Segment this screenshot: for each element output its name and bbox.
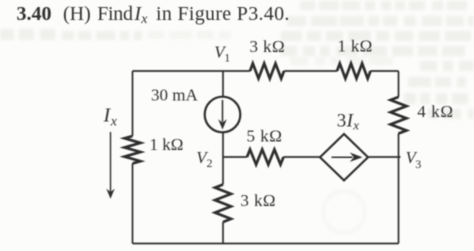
wire: 5k resistor to dependent source	[284, 156, 321, 158]
arrow inside dependent source (pointing right)	[332, 153, 363, 162]
svg-text:1 kΩ: 1 kΩ	[338, 37, 373, 56]
svg-text:(H): (H)	[63, 3, 91, 25]
svg-text:3 kΩ: 3 kΩ	[240, 191, 275, 210]
svg-text:Find: Find	[97, 3, 133, 25]
svg-text:3: 3	[337, 111, 347, 132]
svg-text:4 kΩ: 4 kΩ	[417, 102, 453, 121]
dependent current source 3Ix (diamond)	[320, 134, 368, 180]
wire: top rail between 3k and 1k	[284, 70, 337, 72]
resistor R 3k ohm (top)	[250, 64, 284, 79]
wire: top rail left segment (node V1 region)	[133, 70, 251, 72]
wire: V1 node down to current source	[222, 71, 224, 97]
resistor R 1k ohm (top right)	[337, 64, 371, 79]
svg-text:3.40: 3.40	[17, 3, 52, 25]
current source I1 30 mA (circle)	[205, 97, 241, 133]
wire: top rail right segment	[371, 70, 399, 72]
wire: left vertical upper segment	[132, 71, 134, 136]
svg-text:x: x	[110, 115, 118, 130]
wire: left vertical lower segment	[132, 164, 134, 244]
bleed-through circle from reverse page	[323, 191, 365, 233]
svg-text:30 mA: 30 mA	[151, 86, 198, 105]
svg-text:3: 3	[415, 157, 421, 171]
wire: node V2 to 5k resistor	[223, 156, 247, 158]
resistor R 3k ohm (bottom middle)	[215, 185, 231, 223]
svg-text:3 kΩ: 3 kΩ	[250, 37, 285, 56]
arrow inside 30 mA current source (pointing down)	[218, 100, 227, 130]
resistor R 5k ohm (middle)	[247, 150, 284, 165]
label V2	[196, 148, 212, 170]
label 3Ix (dependent source)	[337, 111, 359, 133]
resistor R 1k ohm (left branch)	[125, 136, 141, 164]
wire: current source to node V2	[222, 133, 224, 185]
resistor R 4k ohm (right branch)	[391, 97, 407, 134]
svg-text:in Figure P3.40.: in Figure P3.40.	[156, 3, 290, 25]
svg-text:2: 2	[207, 156, 213, 170]
label V3	[406, 148, 422, 171]
bleed-through text from reverse page (faint)	[0, 1, 474, 119]
svg-text:5 kΩ: 5 kΩ	[247, 127, 283, 146]
wire: right vertical upper segment	[398, 71, 400, 97]
svg-text:1 kΩ: 1 kΩ	[150, 135, 184, 154]
wire: bottom rail	[133, 243, 399, 245]
wire: right vertical lower segment	[398, 134, 400, 244]
title: problem statement	[17, 3, 290, 27]
label V1	[214, 43, 230, 65]
arrow for Ix (left, pointing down)	[106, 132, 114, 199]
svg-text:1: 1	[224, 51, 230, 65]
wire: dependent source to node V3	[368, 156, 401, 158]
svg-text:x: x	[140, 12, 148, 27]
svg-text:x: x	[352, 117, 359, 132]
label Ix (left)	[103, 105, 118, 130]
wire: 3k bottom resistor to bottom rail	[222, 222, 224, 244]
